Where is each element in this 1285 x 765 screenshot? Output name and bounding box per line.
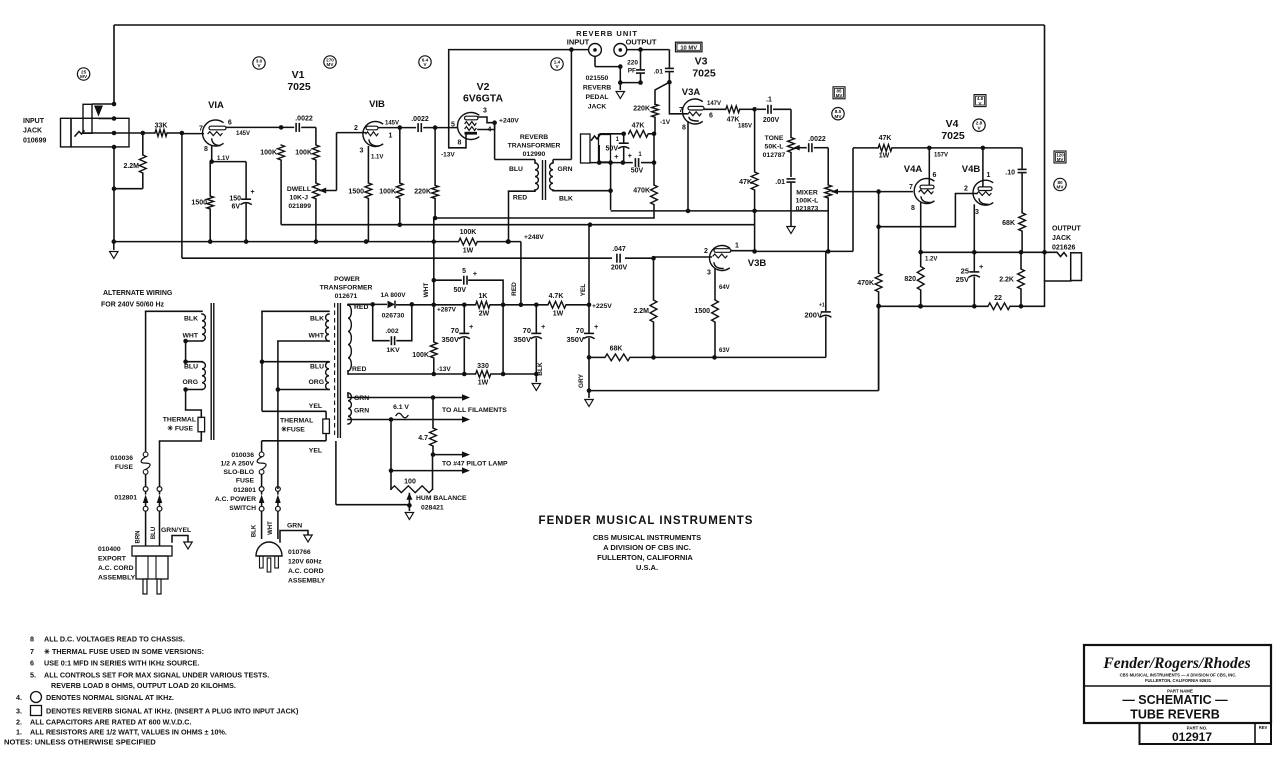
svg-text:3: 3: [707, 270, 711, 277]
capacitor .01 tone: [787, 178, 796, 180]
wire B+ row 225: [281, 224, 754, 226]
resistor 68K out: [1019, 213, 1026, 231]
svg-text:8: 8: [204, 146, 208, 153]
svg-text:7025: 7025: [287, 81, 311, 93]
svg-text:V3B: V3B: [748, 258, 767, 269]
svg-text:ASSEMBLY: ASSEMBLY: [98, 575, 136, 582]
capacitor 50V first: [623, 134, 625, 143]
svg-text:1500: 1500: [694, 308, 710, 315]
transformer T1 primary upper: [262, 310, 329, 312]
svg-text:1/2 A 250V: 1/2 A 250V: [220, 461, 254, 468]
wire -13V row: [348, 373, 476, 375]
wire filament bot: [389, 417, 394, 422]
svg-text:22: 22: [994, 295, 1002, 302]
svg-text:100K-L: 100K-L: [796, 198, 819, 205]
svg-text:200V: 200V: [611, 265, 628, 272]
svg-text:MIXER: MIXER: [796, 190, 818, 197]
svg-text:10K-J: 10K-J: [289, 195, 308, 202]
wire WHT vertical: [433, 218, 435, 342]
svg-text:BLU: BLU: [310, 364, 324, 371]
ground main: [113, 242, 115, 250]
resistor 1500 VIA cathode: [209, 162, 211, 196]
svg-text:6: 6: [228, 120, 232, 127]
switch left pole2: [159, 441, 161, 487]
svg-text:6V: 6V: [231, 204, 240, 211]
marker 6.4V circle: [419, 56, 431, 68]
wire +240V down to transformer: [494, 123, 496, 160]
svg-text:6: 6: [709, 113, 713, 120]
svg-text:DWELL: DWELL: [287, 186, 311, 193]
svg-text:FUSE: FUSE: [236, 478, 255, 485]
svg-text:5: 5: [462, 268, 466, 275]
svg-text:POWER: POWER: [334, 276, 360, 283]
svg-text:.10: .10: [1005, 170, 1015, 177]
svg-text:1: 1: [735, 243, 739, 250]
svg-text:MV: MV: [1057, 185, 1065, 190]
resistor 330 1W: [476, 371, 491, 378]
svg-text:U.S.A.: U.S.A.: [636, 563, 658, 572]
svg-text:ALTERNATE WIRING: ALTERNATE WIRING: [103, 290, 173, 297]
wire input sleeve: [594, 56, 596, 66]
potentiometer 100 hum balance: [390, 471, 392, 490]
svg-text:50K-L: 50K-L: [765, 144, 784, 151]
resistor 220K V2 grid: [434, 128, 436, 186]
svg-text:PF: PF: [628, 68, 636, 75]
marker 25MV circle: [77, 68, 89, 80]
marker 2.8V circle: [973, 119, 985, 131]
resistor 100K VIA plate: [278, 145, 285, 160]
svg-text:Fender/Rogers/Rhodes: Fender/Rogers/Rhodes: [1102, 655, 1250, 672]
wire tip to 33K: [114, 132, 155, 134]
svg-text:350V: 350V: [513, 335, 531, 344]
note circle glyph: [31, 692, 42, 703]
svg-text:010036: 010036: [110, 455, 133, 462]
triode VIA: [203, 120, 223, 146]
svg-text:7: 7: [199, 126, 203, 133]
svg-text:V: V: [979, 101, 982, 106]
svg-text:V4A: V4A: [904, 164, 923, 175]
svg-text:7: 7: [909, 184, 913, 191]
wire pedal tip row: [600, 133, 624, 135]
transformer T1 primary lower: [262, 361, 329, 363]
svg-text:ALL CONTROLS SET FOR MAX S: ALL CONTROLS SET FOR MAX SIGNAL UNDER VA…: [44, 671, 269, 680]
svg-text:-13V: -13V: [437, 366, 451, 373]
svg-text:2.: 2.: [16, 718, 22, 727]
svg-text:RED: RED: [511, 282, 518, 296]
svg-text:5.: 5.: [30, 671, 36, 680]
svg-text:820: 820: [904, 276, 916, 283]
svg-text:70: 70: [451, 326, 459, 335]
svg-text:✳ FUSE: ✳ FUSE: [167, 425, 193, 433]
wire grid node to V3A: [669, 82, 687, 114]
svg-text:70: 70: [576, 326, 584, 335]
wire V3A plate: [704, 108, 726, 110]
svg-text:220: 220: [627, 60, 638, 67]
wire V4A cathode: [920, 203, 922, 253]
svg-text:6: 6: [933, 172, 937, 179]
svg-text:✳ THERMAL FUSE USED IN SO: ✳ THERMAL FUSE USED IN SOME VERSIONS:: [44, 647, 204, 656]
svg-text:.1: .1: [766, 97, 772, 104]
ground BLK: [535, 374, 537, 382]
svg-text:7: 7: [679, 107, 683, 114]
svg-text:147V: 147V: [707, 101, 721, 107]
connector reverb output: [614, 44, 627, 57]
svg-text:THERMAL: THERMAL: [280, 418, 313, 425]
wire WHT primary down: [277, 341, 279, 489]
capacitor .01 reverb return: [668, 50, 670, 68]
svg-text:GRN: GRN: [354, 395, 369, 402]
transformer T1 filament: [348, 393, 351, 424]
svg-text:100K: 100K: [412, 352, 429, 359]
svg-text:MV: MV: [80, 74, 88, 79]
input jack J1: [61, 118, 72, 147]
wire GRY down: [588, 357, 590, 390]
svg-text:028421: 028421: [421, 505, 444, 512]
svg-text:YEL: YEL: [309, 403, 322, 410]
wire 50V row: [590, 162, 633, 164]
thermal fuse left: [185, 390, 187, 411]
triode V3A: [682, 99, 702, 124]
resistor 100K bias bleed: [430, 342, 437, 358]
resistor 100K 1W bleeder: [459, 238, 478, 245]
capacitor 70 350V first: [463, 305, 465, 333]
svg-text:+: +: [541, 322, 546, 331]
svg-text:012801: 012801: [114, 495, 137, 502]
wire V2 plate lead: [478, 117, 495, 123]
svg-text:470K: 470K: [857, 280, 874, 287]
svg-text:.002: .002: [385, 328, 398, 335]
svg-text:021626: 021626: [1052, 245, 1075, 252]
wire VIA plate row: [226, 126, 294, 128]
svg-text:010699: 010699: [23, 138, 46, 145]
capacitor .0022 VIB coupling: [417, 123, 419, 132]
ground hum balance: [408, 505, 410, 511]
svg-text:+: +: [473, 269, 478, 278]
svg-text:330: 330: [477, 363, 489, 370]
svg-text:70: 70: [523, 326, 531, 335]
svg-text:FUSE: FUSE: [115, 464, 134, 471]
svg-text:50V: 50V: [454, 287, 467, 294]
svg-text:021899: 021899: [288, 203, 311, 210]
svg-text:FULLERTON, CALIFORNIA 92631: FULLERTON, CALIFORNIA 92631: [1145, 678, 1212, 683]
wire BRN down: [145, 311, 147, 452]
wire mixer bus down: [878, 192, 880, 274]
svg-text:EXPORT: EXPORT: [98, 556, 127, 563]
triode V4B: [973, 180, 993, 205]
svg-text:HUM BALANCE: HUM BALANCE: [416, 495, 467, 502]
wire V4B grid: [879, 194, 977, 227]
resistor 47K to V3B feed: [754, 109, 756, 172]
svg-text:RED: RED: [352, 366, 366, 373]
transformer T1 core: [337, 303, 339, 438]
svg-text:ALL CAPACITORS ARE RATED A: ALL CAPACITORS ARE RATED AT 600 W.V.D.C.: [30, 718, 191, 727]
wire jack sleeve down: [113, 147, 115, 242]
capacitor 25 25V: [973, 252, 975, 271]
svg-text:V4B: V4B: [962, 164, 981, 175]
svg-text:100K: 100K: [260, 150, 277, 157]
resistor 4.7K 1W: [548, 301, 566, 308]
svg-text:+248V: +248V: [524, 234, 544, 241]
wire series link: [185, 341, 187, 362]
svg-text:100K: 100K: [379, 189, 396, 196]
svg-text:2: 2: [964, 186, 968, 193]
switch right pole2: [276, 487, 281, 492]
svg-text:BLU: BLU: [184, 364, 198, 371]
svg-text:+287V: +287V: [437, 307, 457, 314]
svg-text:47K: 47K: [879, 135, 892, 142]
svg-text:ASSEMBLY: ASSEMBLY: [288, 578, 326, 585]
svg-text:RED: RED: [513, 195, 527, 202]
svg-text:PEDAL: PEDAL: [585, 94, 608, 101]
wire V4B cathode: [973, 204, 975, 252]
svg-text:100: 100: [404, 479, 416, 486]
capacitor 5 50V: [434, 279, 462, 281]
svg-text:A.C. CORD: A.C. CORD: [98, 565, 134, 572]
svg-text:JACK: JACK: [588, 104, 607, 111]
wire pilot arrow1: [433, 454, 463, 456]
svg-text:TUBE REVERB: TUBE REVERB: [1130, 708, 1220, 722]
svg-text:63V: 63V: [719, 348, 730, 354]
svg-text:.0022: .0022: [411, 116, 429, 123]
wire GRNYEL ground: [172, 536, 188, 543]
capacitor 150 6V: [212, 161, 246, 163]
svg-text:3: 3: [483, 108, 487, 115]
fuse 010036 slo-blo: [261, 441, 263, 452]
svg-text:145V: 145V: [385, 121, 399, 127]
svg-text:1A 800V: 1A 800V: [380, 292, 406, 299]
ground L1: [790, 211, 792, 226]
note square glyph: [31, 706, 42, 716]
svg-text:7025: 7025: [692, 68, 716, 80]
fuse 010036 export: [143, 452, 148, 457]
triode V3B: [709, 245, 729, 270]
wire to output sleeve: [1021, 281, 1071, 306]
svg-text:.01: .01: [654, 69, 664, 76]
svg-text:MV: MV: [1057, 157, 1064, 162]
svg-text:1W: 1W: [879, 153, 890, 160]
svg-text:010400: 010400: [98, 546, 121, 553]
resistor 4.7 filament: [432, 398, 434, 429]
svg-text:7: 7: [30, 647, 34, 656]
wire V4 plate row: [853, 147, 878, 149]
wire to export plug: [145, 511, 147, 546]
svg-text:+: +: [251, 189, 255, 196]
plug export 010400: [132, 546, 172, 556]
wire grid node to 220K: [655, 82, 669, 104]
wire mixer to V4 plate bus: [852, 148, 854, 252]
marker 85MV square: [833, 87, 845, 99]
svg-text:+225V: +225V: [592, 303, 612, 310]
triode V4A: [914, 178, 934, 203]
wire rect row: [348, 303, 387, 305]
svg-text:A.C. POWER: A.C. POWER: [215, 496, 256, 503]
resistor 1500 VIB cathode: [365, 183, 372, 198]
svg-text:120V 60Hz: 120V 60Hz: [288, 559, 322, 566]
svg-text:CBS MUSICAL INSTRUMENTS — A DI: CBS MUSICAL INSTRUMENTS — A DIVISION OF …: [1120, 673, 1237, 678]
svg-text:INPUT: INPUT: [567, 38, 590, 47]
transformer T2 core: [542, 160, 544, 200]
svg-text:470K: 470K: [633, 188, 650, 195]
wire dry signal down: [181, 133, 183, 258]
svg-text:GRN: GRN: [354, 408, 369, 415]
svg-text:TRANSFORMER: TRANSFORMER: [320, 285, 373, 292]
svg-text:ORG: ORG: [309, 379, 324, 386]
wire input jack to transformer: [571, 49, 588, 51]
svg-text:BRN: BRN: [136, 531, 142, 544]
svg-text:8: 8: [458, 140, 462, 147]
resistor 1K 2W: [476, 301, 490, 308]
svg-text:VIB: VIB: [369, 99, 385, 110]
svg-text:✳FUSE: ✳FUSE: [281, 426, 305, 434]
svg-text:TONE: TONE: [765, 135, 784, 142]
wire gnd return long: [589, 390, 879, 392]
svg-text:OUTPUT: OUTPUT: [626, 38, 657, 47]
svg-text:2: 2: [354, 125, 358, 132]
marker 10MV box: [676, 42, 703, 52]
marker 8.5MV circle: [832, 108, 844, 120]
svg-text:2.2K: 2.2K: [999, 277, 1014, 284]
svg-text:012801: 012801: [233, 487, 256, 494]
switch right pole1: [259, 487, 264, 492]
resistor 100K VIB plate load: [399, 128, 401, 183]
marker 4.8V square: [974, 95, 986, 107]
svg-text:GRN/YEL: GRN/YEL: [161, 527, 191, 534]
svg-text:.0022: .0022: [808, 136, 826, 143]
svg-text:VIA: VIA: [208, 100, 224, 111]
svg-text:GRY: GRY: [578, 373, 585, 388]
wire V2 cathode loop: [449, 50, 572, 148]
svg-text:220K: 220K: [633, 106, 650, 113]
wire output sleeve gnd: [619, 67, 621, 90]
pentode V2: [458, 112, 479, 139]
svg-text:REV: REV: [1259, 725, 1268, 730]
svg-text:ALL D.C. VOLTAGES READ TO: ALL D.C. VOLTAGES READ TO CHASSIS.: [44, 635, 185, 644]
node jack tip line: [84, 132, 114, 134]
svg-text:DENOTES REVERB SIGNAL AT I: DENOTES REVERB SIGNAL AT IKHz. (INSERT A…: [46, 707, 299, 716]
svg-text:+: +: [594, 322, 599, 331]
svg-text:1500: 1500: [348, 189, 364, 196]
resistor 47K V3A plate: [726, 106, 740, 113]
resistor 1500 V3B: [712, 300, 719, 322]
svg-text:ALL RESISTORS ARE 1/2 WATT: ALL RESISTORS ARE 1/2 WATT, VALUES IN OH…: [30, 728, 227, 737]
marker 3.0V circle: [253, 57, 265, 69]
svg-text:FULLERTON, CALIFORNIA: FULLERTON, CALIFORNIA: [597, 553, 693, 562]
svg-text:— SCHEMATIC —: — SCHEMATIC —: [1122, 693, 1228, 707]
svg-text:V4: V4: [946, 118, 959, 130]
svg-text:ORG: ORG: [183, 379, 198, 386]
svg-text:47K: 47K: [727, 117, 740, 124]
svg-text:220K: 220K: [414, 189, 431, 196]
svg-text:+: +: [979, 262, 984, 271]
svg-text:3.: 3.: [16, 707, 22, 716]
wire mixer wiper row: [832, 191, 914, 193]
svg-text:USE 0:1 MFD IN SERIES WITH: USE 0:1 MFD IN SERIES WITH IKHz SOURCE.: [44, 659, 199, 668]
wire V3B plate row: [731, 250, 755, 252]
svg-text:MV: MV: [835, 114, 843, 119]
svg-text:2.2M: 2.2M: [123, 163, 139, 170]
svg-text:REVERB: REVERB: [520, 134, 548, 141]
wire BLK secondary: [610, 163, 612, 210]
resistor 820: [920, 252, 922, 266]
potentiometer MIXER 100K-L: [827, 148, 829, 185]
wire output to .01: [627, 49, 670, 51]
wire RED down: [520, 242, 522, 305]
resistor 68K feedback: [605, 354, 630, 361]
svg-text:.0022: .0022: [295, 116, 313, 123]
svg-text:TO #47 PILOT LAMP: TO #47 PILOT LAMP: [442, 461, 508, 468]
svg-text:A DIVISION OF CBS INC.: A DIVISION OF CBS INC.: [603, 543, 691, 552]
svg-text:200V: 200V: [804, 311, 822, 320]
node dots on bypass vertical: [112, 102, 117, 107]
svg-text:6V6GTA: 6V6GTA: [463, 93, 503, 105]
svg-text:-13V: -13V: [441, 152, 455, 159]
resistor 100K dwell top: [313, 145, 320, 160]
capacitor 200V elec: [825, 251, 827, 311]
svg-text:10 MV: 10 MV: [680, 45, 697, 51]
svg-text:1: 1: [987, 172, 991, 179]
transformer T2 primary coil: [534, 160, 536, 164]
svg-text:A.C. CORD: A.C. CORD: [288, 568, 324, 575]
svg-text:WHT: WHT: [183, 333, 199, 340]
svg-text:BLK: BLK: [184, 316, 198, 323]
capacitor 50V second: [634, 158, 636, 167]
svg-text:47K: 47K: [739, 179, 752, 186]
thermal fuse right: [325, 411, 327, 419]
wire L1 return: [611, 210, 829, 212]
svg-text:150: 150: [229, 196, 241, 203]
title block: [1084, 645, 1271, 723]
svg-text:100K: 100K: [460, 229, 477, 236]
wire V3B cathode: [714, 269, 716, 301]
svg-text:INPUT: INPUT: [23, 118, 45, 125]
snubber box 026730: [373, 304, 389, 340]
svg-text:REVERB: REVERB: [583, 85, 611, 92]
svg-text:350V: 350V: [441, 335, 459, 344]
svg-text:FENDER MUSICAL INSTRUMENTS: FENDER MUSICAL INSTRUMENTS: [539, 515, 754, 527]
svg-text:+: +: [469, 322, 474, 331]
svg-text:JACK: JACK: [23, 128, 42, 135]
svg-text:8: 8: [682, 125, 686, 132]
svg-text:GRN: GRN: [287, 523, 302, 530]
wire V2 screen lead: [478, 123, 495, 130]
svg-text:100K: 100K: [295, 150, 312, 157]
svg-text:5: 5: [451, 122, 455, 129]
svg-text:BLK: BLK: [310, 316, 324, 323]
triode VIB: [363, 121, 383, 146]
svg-text:145V: 145V: [236, 131, 250, 137]
svg-text:THERMAL: THERMAL: [163, 417, 196, 424]
diode rectifier 1A 800V: [388, 301, 396, 309]
svg-text:010766: 010766: [288, 549, 311, 556]
capacitor 220PF: [640, 50, 642, 70]
svg-text:012671: 012671: [335, 293, 358, 300]
resistor 2.2M V3B grid: [653, 258, 655, 300]
svg-text:BLK: BLK: [559, 196, 573, 203]
capacitor .047 dry: [616, 254, 618, 263]
svg-text:8: 8: [30, 635, 34, 644]
wire GRN ground: [280, 531, 308, 543]
transformer T1alt core: [210, 303, 212, 440]
wire 33K to VIA grid: [182, 133, 204, 135]
capacitor 70 350V second: [535, 305, 537, 333]
svg-text:BLU: BLU: [151, 527, 157, 539]
resistor 22: [988, 303, 1010, 310]
svg-text:68K: 68K: [610, 346, 623, 353]
svg-text:1.2V: 1.2V: [925, 257, 937, 263]
wire pilot arrow2: [390, 420, 392, 471]
svg-text:+: +: [614, 152, 619, 161]
svg-text:V3: V3: [695, 56, 708, 68]
